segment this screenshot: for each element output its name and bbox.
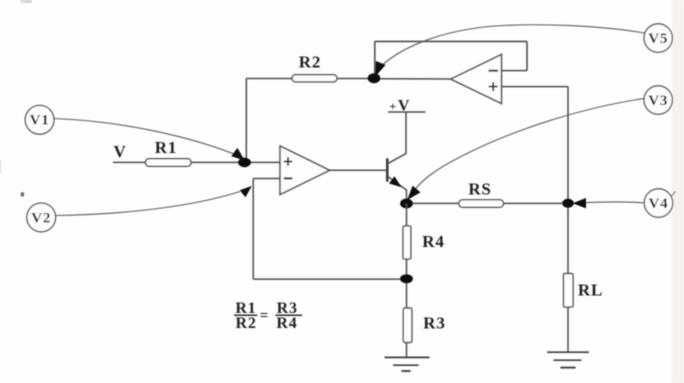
probe lead V1 (curve to node A) [54, 119, 239, 157]
probe circle V4 [644, 189, 672, 217]
probe lead V3 (curve to emitter node) [414, 99, 645, 193]
svg-text:V: V [398, 98, 410, 115]
node D (emitter node) [400, 199, 413, 209]
svg-text:V1: V1 [30, 113, 50, 129]
stray speck left margin [21, 192, 24, 196]
probe circle V5 [644, 24, 672, 52]
ground (left, below R3) [385, 356, 430, 358]
wire: U1 inverting input stub [253, 178, 280, 180]
wire: R2 branch horizontal run [246, 78, 374, 80]
resistor R3 [403, 308, 412, 343]
wire: U2 inverting input stub [502, 70, 528, 72]
svg-text:R3: R3 [423, 314, 445, 333]
wire: right column vertical (to RL and ground) [567, 87, 569, 353]
svg-text:R2: R2 [236, 315, 257, 332]
wire: inverting feedback horizontal to node E [253, 278, 406, 280]
wire: U2 output to node B [374, 78, 451, 80]
wire: RS run from emitter node to right column [407, 202, 569, 204]
resistor R1 [146, 159, 192, 167]
node E (R4/R3 junction) [400, 274, 413, 283]
op-amp U2 [451, 55, 502, 104]
svg-text:+: + [389, 99, 397, 113]
node B (summing junction at R2 / U2 output) [368, 73, 381, 83]
svg-text:RS: RS [468, 180, 491, 199]
wire: R4/R3 column vertical [406, 204, 408, 358]
svg-text:RL: RL [578, 280, 603, 299]
wire: node A up to R2 level [245, 79, 247, 163]
transistor Q1 [386, 158, 389, 181]
left edge shadow [0, 160, 1, 173]
probe circle V2 [27, 203, 56, 232]
+V supply rail [388, 111, 426, 113]
op-amp U1 [280, 146, 330, 195]
wire: V source input to node A [113, 161, 280, 163]
probe lead V2 (curve to inverting input) [56, 192, 240, 216]
probe lead V4 (to node C) [578, 202, 644, 203]
wire: U2 non-inverting input run to right column [502, 86, 569, 88]
top-left scan smudge [21, 0, 32, 3]
wire: inverting feedback vertical down [252, 179, 254, 280]
node C (RS / RL junction) [562, 199, 574, 208]
svg-text:=: = [260, 308, 269, 324]
svg-text:R2: R2 [299, 53, 321, 72]
svg-text:V4: V4 [649, 196, 669, 212]
wire: feedback right vertical [526, 41, 528, 70]
wire: U1 output to Q1 base [330, 169, 387, 171]
wire: feedback top horizontal [375, 40, 527, 42]
svg-text:R1: R1 [155, 138, 177, 157]
node A (R1 / + input junction) [238, 158, 251, 168]
svg-text:V2: V2 [31, 210, 51, 226]
svg-text:R4: R4 [276, 315, 297, 332]
probe lead V5 (curve to node B) [379, 25, 645, 68]
wire: feedback left vertical into node B [374, 41, 376, 78]
right edge scan tint [672, 0, 684, 383]
formula R1/R2 = R3/R4 [235, 300, 297, 332]
resistor RS [459, 200, 504, 208]
ground (right, below RL) [547, 351, 589, 353]
probe circle V1 [25, 105, 54, 134]
V4 tick mark [672, 192, 676, 197]
svg-text:V: V [113, 142, 126, 161]
resistor R4 [403, 226, 411, 259]
resistor R2 [292, 75, 337, 82]
svg-text:V5: V5 [648, 31, 668, 47]
probe circle V3 [644, 86, 672, 114]
svg-text:R4: R4 [422, 232, 444, 251]
svg-text:V3: V3 [648, 93, 668, 109]
resistor RL [564, 274, 574, 308]
